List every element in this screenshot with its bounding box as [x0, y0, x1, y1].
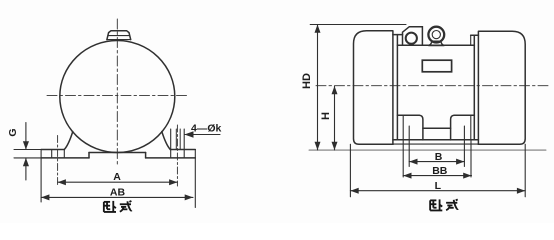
H dimension line — [334, 86, 336, 150]
saddle line under circle — [89, 152, 146, 154]
feet bottom line — [393, 139, 479, 141]
L left arrow — [350, 188, 358, 194]
right end cover — [478, 31, 525, 144]
eyebolt ring outer — [428, 27, 444, 43]
base left foot top — [41, 149, 64, 151]
char Wo (卧) — [430, 199, 436, 201]
base bottom right — [146, 157, 196, 159]
eyebolt base — [429, 41, 444, 45]
G down arrow — [23, 141, 29, 149]
eyebolt ring inner — [432, 30, 440, 38]
L right arrow — [517, 188, 525, 194]
char Wo (卧) — [104, 201, 110, 203]
4-Ok leader line — [185, 134, 220, 136]
right slot centerline — [176, 125, 178, 186]
left fillet arc — [64, 132, 73, 150]
dimension labels — [7, 73, 448, 198]
char Shi (式) — [446, 202, 457, 204]
foot outer edge right — [470, 115, 472, 140]
base right foot top — [170, 149, 195, 151]
HD top extension line — [310, 24, 406, 26]
body bottom line right — [454, 114, 474, 116]
L extension left — [349, 144, 351, 197]
A dimension line — [58, 181, 178, 183]
foot slot line left — [408, 126, 410, 167]
HD top arrow — [315, 25, 321, 33]
char Shi (式) — [120, 203, 131, 205]
svg-text:A: A — [113, 171, 121, 183]
svg-text:BB: BB — [432, 165, 448, 177]
HD dimension line — [317, 25, 319, 151]
A right arrow — [169, 179, 177, 185]
G dimension line upper — [25, 123, 27, 150]
AB left arrow — [41, 194, 49, 200]
arch bridge line — [423, 127, 451, 129]
left end cover — [354, 31, 393, 145]
base bottom left — [41, 157, 89, 159]
arch left vertical with fillet — [419, 115, 423, 140]
horizontal centerline — [47, 95, 188, 97]
body top line — [397, 44, 474, 46]
G dimension line lower — [25, 158, 27, 180]
arrowheads — [23, 25, 525, 201]
HD bottom arrow — [315, 142, 321, 150]
卧式 text left view (drawn strokes) — [104, 201, 132, 212]
saddle step right — [145, 153, 147, 158]
BB extension left — [402, 141, 404, 178]
body right edge — [473, 35, 475, 140]
foot slot line right — [463, 126, 465, 167]
motor body circle — [60, 41, 175, 153]
BB left arrow — [403, 173, 411, 179]
H bottom arrow — [332, 142, 338, 150]
terminal box gland circle — [406, 33, 417, 44]
nameplate — [422, 60, 451, 72]
right foot slot edges — [170, 129, 172, 158]
svg-text:H: H — [320, 112, 332, 120]
svg-text:B: B — [435, 151, 443, 163]
body rib step left — [393, 34, 403, 36]
body left edge — [396, 35, 398, 140]
right fillet arc — [162, 132, 171, 150]
under-feet line between covers — [393, 143, 479, 145]
BB right arrow — [463, 173, 471, 179]
terminal box — [403, 27, 423, 46]
G dimension extension lines — [14, 149, 41, 151]
svg-text:HD: HD — [301, 73, 313, 89]
4-Ok leader arrow — [184, 131, 193, 138]
left foot slot edges — [51, 150, 53, 158]
svg-text:4—Øk: 4—Øk — [191, 122, 222, 134]
svg-text:G: G — [7, 128, 19, 136]
base left edge + AB extension — [40, 150, 42, 203]
AB dimension line — [41, 196, 193, 198]
body bottom line left — [397, 114, 419, 116]
B left arrow — [409, 159, 417, 165]
left slot centerline — [57, 136, 59, 187]
saddle step left — [88, 153, 90, 158]
arch right vertical with fillet — [451, 115, 455, 140]
H top arrow — [332, 86, 338, 94]
vertical centerline — [116, 19, 118, 165]
BB dimension line — [403, 175, 471, 177]
AB right arrow — [185, 194, 193, 200]
BB extension right — [470, 141, 472, 178]
卧式 text right view (drawn strokes) — [430, 199, 458, 210]
foot outer edge left — [402, 115, 404, 140]
body rib inner edge right — [470, 35, 472, 45]
horizontal centerline — [316, 85, 548, 87]
svg-text:L: L — [435, 180, 442, 192]
B dimension line — [409, 161, 464, 163]
L extension right — [524, 144, 526, 197]
ground line — [309, 149, 546, 151]
body rib step right — [471, 34, 479, 36]
A left arrow — [58, 179, 66, 185]
eyebolt cap on top of body — [107, 31, 131, 40]
svg-text:AB: AB — [110, 186, 126, 198]
B right arrow — [456, 159, 464, 165]
G up arrow — [23, 158, 29, 166]
base right edge + AB extension — [194, 150, 196, 208]
L dimension line — [350, 190, 525, 192]
